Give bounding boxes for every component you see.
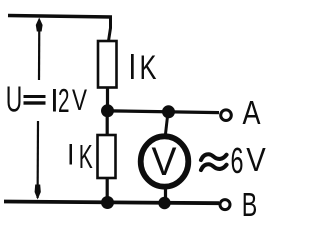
svg-text:6: 6 [231,140,244,181]
svg-text:K: K [140,49,157,87]
svg-text:V: V [152,140,177,184]
svg-text:U: U [6,79,23,120]
svg-text:A: A [243,94,261,131]
svg-text:V: V [246,142,266,179]
svg-text:B: B [242,186,257,223]
svg-text:V: V [72,84,87,117]
svg-text:K: K [79,138,93,175]
svg-text:2: 2 [58,82,70,119]
